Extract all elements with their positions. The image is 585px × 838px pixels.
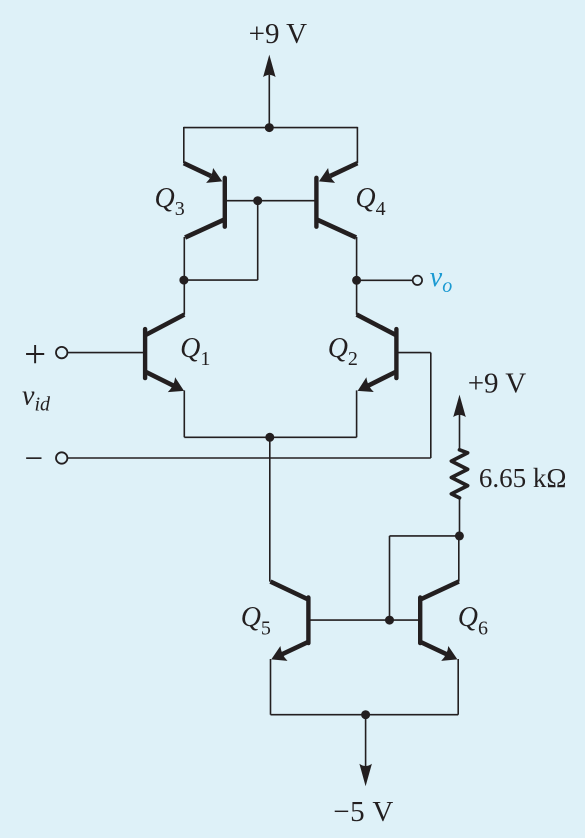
wire base Q5-Q6 [308, 619, 420, 621]
wire left mid vertical [183, 237, 185, 315]
svg-text:Q5: Q5 [241, 602, 271, 639]
Q3 collector lead [185, 220, 224, 238]
svg-text:Q2: Q2 [328, 333, 358, 370]
transistor Q5 [270, 582, 308, 657]
Q2 base bar [394, 329, 398, 378]
wire Q3 emitter drop [183, 127, 185, 163]
node top rail [265, 123, 274, 132]
svg-text:+9 V: +9 V [249, 18, 308, 50]
wire Q4 emitter drop [356, 127, 358, 163]
node diff emitters [265, 433, 274, 442]
transistor Q4 [316, 163, 357, 237]
wire top rail [184, 127, 358, 129]
wire Q1 emitter drop [183, 390, 185, 437]
Q2 emitter lead [364, 372, 396, 388]
svg-text:−: − [25, 441, 44, 477]
wire diff emitter rail [184, 436, 356, 438]
Q1 collector lead [146, 315, 185, 335]
Q1 emitter lead [146, 372, 178, 388]
node output [352, 276, 361, 285]
svg-text:Q3: Q3 [155, 183, 185, 220]
svg-text:6.65 kΩ: 6.65 kΩ [479, 463, 567, 493]
terminal - input [56, 452, 67, 463]
wire Q5 emitter drop [270, 659, 272, 715]
arrowhead Q1 emitter [168, 377, 184, 392]
Q2 collector lead [357, 315, 396, 335]
node base tie [253, 196, 262, 205]
wire mirror tie horizontal [390, 535, 460, 537]
svg-text:+: + [24, 333, 46, 376]
wire Q6 emitter drop [457, 659, 459, 715]
wire mirror tie vertical [389, 536, 391, 620]
transistor Q6 [420, 582, 459, 657]
wire -5V shaft [365, 715, 367, 767]
Q3 emitter lead [184, 163, 211, 176]
arrowhead Q6 emitter [441, 646, 457, 661]
node left collector [179, 276, 188, 285]
svg-text:vid: vid [22, 381, 51, 416]
Q6 collector lead [421, 582, 459, 600]
arrowhead Q5 emitter [271, 646, 287, 661]
wire Q2 emitter drop [356, 390, 358, 437]
Q5 collector lead [270, 582, 308, 600]
arrowhead -5V [359, 764, 372, 787]
wire base tie horizontal [184, 279, 258, 281]
wire below resistor [459, 498, 461, 536]
arrowhead +9V top [263, 55, 276, 78]
transistor Q3 [184, 163, 225, 237]
wire + input [68, 352, 145, 354]
transistor Q1 [145, 315, 184, 388]
arrowhead +9V right [453, 395, 466, 418]
terminal output vo [413, 276, 422, 285]
wire Q2 base [396, 352, 430, 354]
wire - input [68, 457, 431, 459]
Q4 collector lead [317, 220, 356, 238]
resistor R 6.65k zigzag [451, 450, 467, 498]
wire top supply shaft [268, 75, 270, 128]
svg-text:vo: vo [430, 262, 452, 297]
wire tail current [269, 437, 271, 581]
svg-text:Q4: Q4 [355, 183, 385, 220]
arrowhead Q3 emitter [206, 168, 222, 183]
terminal + input [56, 347, 67, 358]
svg-text:Q1: Q1 [180, 333, 210, 370]
svg-text:Q6: Q6 [458, 602, 488, 639]
Q5 base bar [306, 598, 310, 644]
Q1 base bar [143, 329, 147, 378]
Q4 base bar [314, 178, 318, 227]
Q6 base bar [418, 598, 422, 644]
Q6 emitter lead [421, 642, 451, 656]
arrowhead Q2 emitter [358, 377, 374, 392]
wire right supply shaft [459, 410, 461, 450]
transistor Q2 [357, 315, 397, 388]
wire base Q3-Q4 [225, 200, 317, 202]
wire output [357, 279, 413, 281]
svg-text:−5 V: −5 V [333, 796, 394, 828]
Q4 emitter lead [330, 163, 357, 176]
node Q5-Q6 base [385, 616, 394, 625]
wire Q6 collector riser [458, 536, 460, 582]
wire - input riser [430, 353, 432, 458]
Q3 base bar [223, 178, 227, 227]
wire bottom rail [271, 714, 459, 716]
node bottom rail [361, 710, 370, 719]
Q5 emitter lead [278, 642, 308, 656]
svg-text:+9 V: +9 V [468, 367, 527, 399]
wire right mid vertical [356, 237, 358, 315]
wire base tie vertical [257, 201, 259, 280]
node resistor bottom [455, 531, 464, 540]
arrowhead Q4 emitter [319, 168, 335, 183]
